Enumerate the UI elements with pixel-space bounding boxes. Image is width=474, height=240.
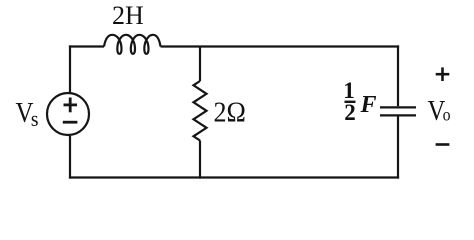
wire left vertical upper	[69, 45, 71, 93]
wire right vertical lower	[397, 117, 399, 179]
minus sign inside source	[63, 121, 78, 124]
plus sign inside source	[64, 104, 78, 107]
wire top left segment	[69, 45, 104, 47]
wire middle vertical lower	[199, 141, 201, 179]
wire middle vertical upper	[199, 47, 201, 82]
resistor R zigzag	[194, 81, 207, 141]
capacitor C top plate	[380, 106, 416, 108]
wire left vertical lower	[69, 135, 71, 179]
wire top right segment	[161, 45, 400, 47]
wire bottom horizontal	[69, 176, 399, 178]
svg-text:F: F	[360, 92, 377, 118]
inductor L1 coil 2H	[104, 35, 161, 54]
svg-text:2H: 2H	[112, 1, 144, 30]
label plus for Vo	[436, 67, 450, 81]
svg-text:2Ω: 2Ω	[214, 97, 246, 128]
label minus for Vo	[436, 143, 450, 146]
svg-text:2: 2	[344, 100, 356, 125]
capacitor C bottom plate	[380, 114, 416, 116]
wire right vertical upper	[397, 45, 399, 106]
voltage source Vs circle	[47, 93, 89, 135]
